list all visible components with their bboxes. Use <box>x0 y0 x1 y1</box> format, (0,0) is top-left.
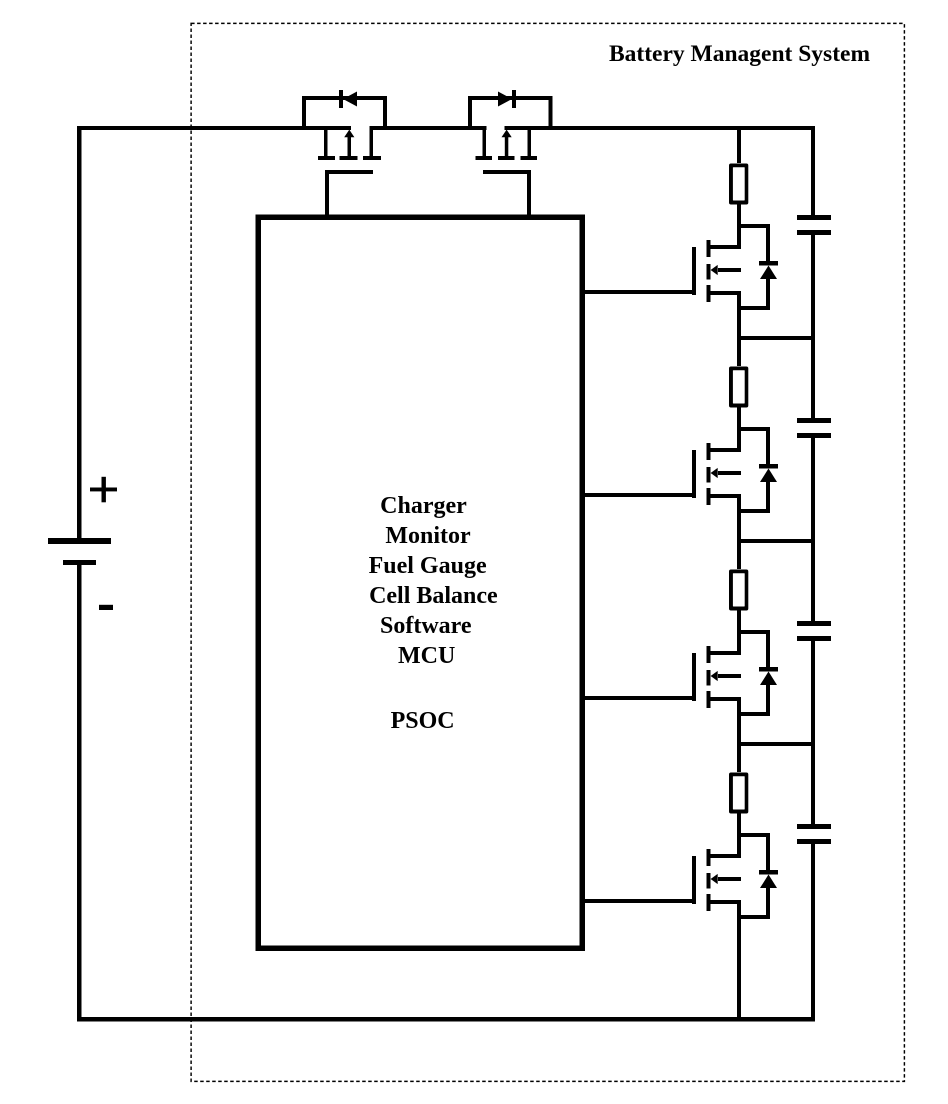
wire: Q4 source down to node 2 <box>737 498 741 543</box>
wire: Q6 source down to bottom rail <box>737 904 741 1021</box>
svg-text:Software: Software <box>380 613 472 639</box>
wire: feed to R3 <box>737 543 741 569</box>
battery BT1 positive plate <box>48 538 111 544</box>
resistor R3 <box>729 570 748 611</box>
svg-text:Battery Managent System: Battery Managent System <box>609 41 870 67</box>
transistor Q2 (right pass FET) <box>476 130 538 174</box>
diode D2 body diode loop of Q2 <box>468 90 553 130</box>
label - <box>99 605 113 610</box>
transistor Q1 (left pass FET) <box>318 130 381 174</box>
wire: top rail middle segment <box>370 126 487 130</box>
wire: node 2 tie to cell stack <box>737 539 815 543</box>
wire: R3 to Q5 drain <box>737 610 741 655</box>
wire: gate lead to Q5 <box>584 696 692 700</box>
label Charger <box>380 493 467 519</box>
wire: cell stack vertical segment 2 <box>811 235 815 418</box>
svg-text:Fuel Gauge: Fuel Gauge <box>369 553 487 579</box>
wire: R4 to Q6 drain <box>737 813 741 858</box>
svg-text:PSOC: PSOC <box>391 708 455 734</box>
wire: top rail right segment <box>505 126 816 130</box>
resistor R1 <box>729 164 748 205</box>
wire: R1 to Q3 drain <box>737 204 741 249</box>
label MCU <box>398 643 455 669</box>
wire: gate lead to Q6 <box>584 899 692 903</box>
wire: node 3 tie to cell stack <box>737 742 815 746</box>
wire: feed to R4 <box>737 746 741 772</box>
wire: cell stack vertical segment 1 <box>811 126 815 215</box>
wire: cell stack vertical segment 4 <box>811 641 815 824</box>
wire: node 1 tie to cell stack <box>737 336 815 340</box>
transistor Q5 (cell balance FET 3) <box>692 646 741 708</box>
wire: feed to R2 <box>737 340 741 366</box>
wire: Q1 gate drop to MCU box <box>325 174 329 217</box>
label Monitor <box>385 523 471 549</box>
wire: gate lead to Q4 <box>584 493 692 497</box>
transistor Q4 (cell balance FET 2) <box>692 443 741 505</box>
label Fuel Gauge <box>369 553 487 579</box>
label Software <box>380 613 472 639</box>
transistor Q6 (cell balance FET 4) <box>692 849 741 911</box>
label PSOC <box>391 708 455 734</box>
wire: top rail left segment <box>77 126 351 130</box>
capacitor C3 (cell 3) <box>797 621 831 641</box>
dashed BMS boundary box <box>191 23 904 1081</box>
diode D6 body diode of Q6 <box>739 833 778 919</box>
battery BT1 negative plate <box>63 560 96 565</box>
diode D4 body diode of Q4 <box>739 427 778 513</box>
MCU block U1 (PSOC) <box>256 215 586 952</box>
diode D1 body diode loop of Q1 <box>302 90 387 130</box>
svg-text:MCU: MCU <box>398 643 455 669</box>
diode D3 body diode of Q3 <box>739 224 778 310</box>
wire: cell stack vertical segment 5 <box>811 844 815 1021</box>
wire: R2 to Q4 drain <box>737 407 741 452</box>
wire: Q5 source down to node 3 <box>737 701 741 746</box>
wire: feed to R1 <box>737 130 741 163</box>
svg-text:Monitor: Monitor <box>385 523 471 549</box>
capacitor C1 (cell 1) <box>797 215 831 235</box>
wire: battery positive vertical <box>77 126 82 538</box>
capacitor C2 (cell 2) <box>797 418 831 438</box>
wire: battery negative vertical <box>77 565 82 1021</box>
label Cell Balance <box>369 583 498 609</box>
wire: cell stack vertical segment 3 <box>811 438 815 621</box>
wire: bottom return rail <box>77 1017 815 1022</box>
label + <box>90 477 117 503</box>
wire: Q3 source down to node 1 <box>737 295 741 340</box>
wire: Q2 gate drop to MCU box <box>527 174 531 217</box>
transistor Q3 (cell balance FET 1) <box>692 240 741 302</box>
wire: gate lead to Q3 <box>584 290 692 294</box>
resistor R2 <box>729 367 748 408</box>
diode D5 body diode of Q5 <box>739 630 778 716</box>
title: Battery Managent System <box>609 41 870 67</box>
svg-text:Charger: Charger <box>380 493 467 519</box>
capacitor C4 (cell 4) <box>797 824 831 844</box>
svg-text:Cell Balance: Cell Balance <box>369 583 498 609</box>
resistor R4 <box>729 773 748 814</box>
